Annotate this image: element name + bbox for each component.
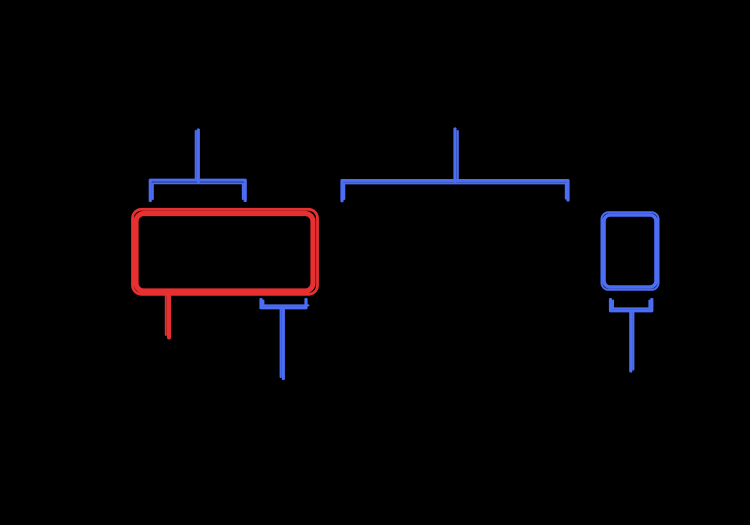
candle body: small blue rectangle bbox=[602, 212, 659, 289]
brace: bracket under red candle body (opens up) bbox=[261, 300, 309, 308]
brace: wide middle bracket bbox=[342, 181, 568, 201]
wire: callout stem below bracket under red body bbox=[281, 308, 284, 379]
brace: bracket under blue candle (opens up) bbox=[611, 300, 652, 311]
wire: left callout stem (top wick pointer) bbox=[196, 130, 199, 181]
wire: callout stem below blue candle bracket bbox=[631, 311, 634, 371]
candle body: red rectangle bbox=[133, 209, 318, 294]
wire: middle callout stem above wide bracket bbox=[455, 129, 458, 181]
wire: red lower wick line under candle body bbox=[166, 294, 169, 338]
brace: left bracket above red candle body bbox=[150, 180, 245, 200]
